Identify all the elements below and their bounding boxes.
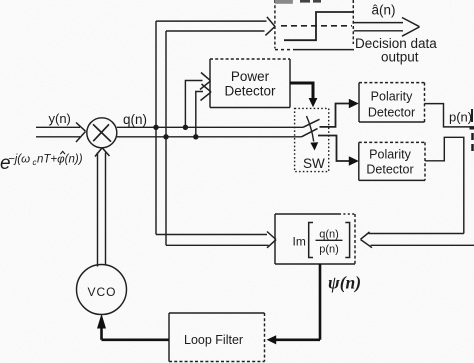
svg-text:ψ(n): ψ(n)	[328, 273, 361, 293]
svg-text:Loop Filter: Loop Filter	[184, 333, 243, 347]
svg-text:p(n): p(n)	[449, 110, 472, 125]
svg-text:c: c	[33, 158, 37, 167]
svg-text:Polarity: Polarity	[369, 148, 411, 162]
svg-text:nT+φ(n)): nT+φ(n))	[37, 154, 83, 166]
svg-text:Detector: Detector	[368, 106, 415, 120]
svg-text:q(n): q(n)	[319, 229, 339, 241]
svg-text:Im: Im	[293, 235, 306, 249]
svg-text:q(n): q(n)	[123, 112, 147, 127]
svg-text:output: output	[381, 50, 419, 65]
svg-text:Detector: Detector	[224, 84, 276, 99]
svg-text:Polarity: Polarity	[371, 90, 413, 104]
svg-text:Detector: Detector	[366, 163, 413, 177]
svg-text:p(n): p(n)	[319, 244, 339, 256]
svg-text:y(n): y(n)	[49, 111, 71, 126]
svg-text:Power: Power	[231, 69, 270, 84]
svg-text:VCO: VCO	[87, 285, 116, 299]
svg-text:−j(ω: −j(ω	[8, 154, 30, 166]
svg-text:SW: SW	[303, 156, 325, 171]
svg-text:â(n): â(n)	[372, 3, 396, 18]
